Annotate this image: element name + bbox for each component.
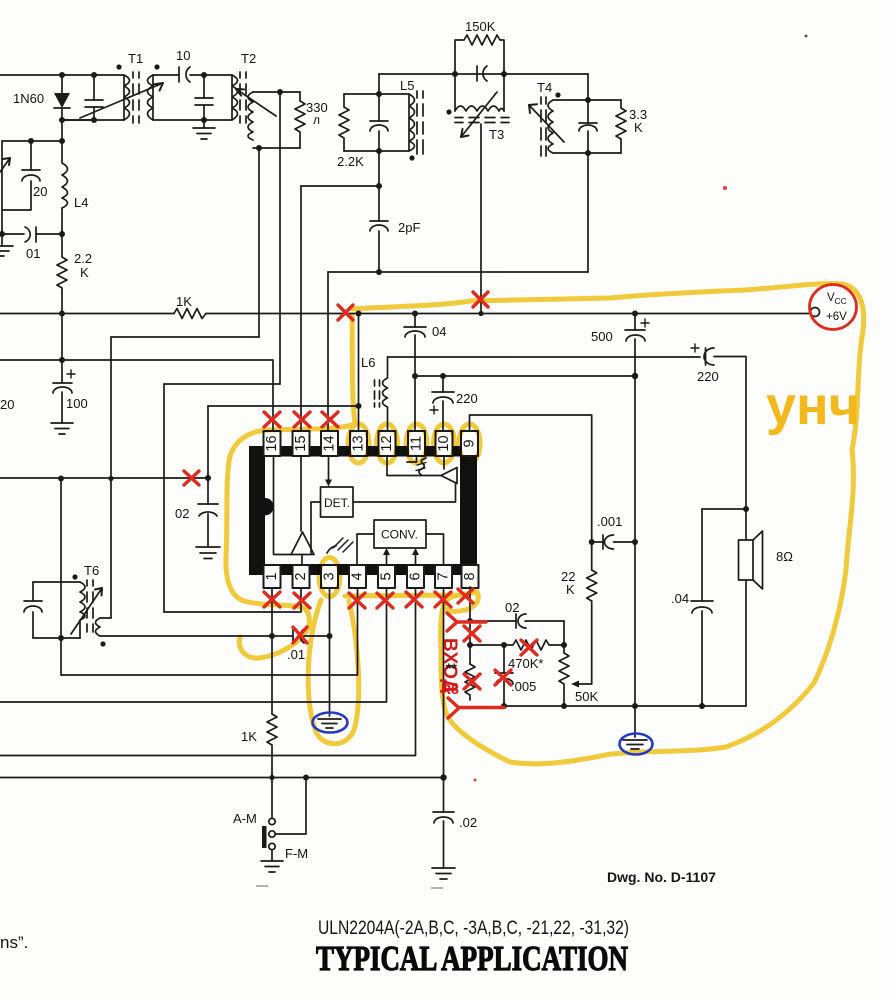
node cap20 top: [28, 138, 34, 144]
internal wire amp to pin2: [301, 555, 303, 566]
annotation X pin8 lower: [464, 626, 480, 641]
annotation X pin7: [435, 592, 451, 607]
internal wire pin16 to amp: [274, 456, 292, 555]
pin 16: [264, 431, 281, 456]
wire H4 pin13 net: [208, 405, 359, 407]
wire 500 column down: [634, 376, 636, 737]
svg-text:K: K: [634, 120, 643, 135]
wire H2 pin16 net: [0, 360, 273, 431]
internal wire pin15 to amp apex: [300, 456, 302, 531]
wire audio gnd rail y706: [504, 705, 746, 707]
T4 tank bottom wire: [553, 152, 621, 154]
annotation X 02wire: [184, 471, 199, 485]
pin 9: [461, 431, 478, 456]
node H4 pin13: [356, 403, 362, 409]
wire H1 330 net: [111, 336, 259, 338]
svg-text:15: 15: [293, 435, 309, 451]
capacitor 100 electrolytic: [53, 370, 88, 423]
svg-text:TYPICAL APPLICATION: TYPICAL APPLICATION: [316, 939, 628, 978]
svg-text:4: 4: [350, 572, 366, 580]
internal wire CONV left pin4: [357, 534, 374, 565]
wire diode to L4: [62, 120, 94, 141]
svg-text:L6: L6: [361, 355, 375, 370]
node 01 left: [0, 231, 5, 237]
wire pin9 to .001: [470, 415, 592, 535]
capacitor .04: [404, 314, 446, 432]
svg-text:6: 6: [408, 572, 424, 580]
ground pin3: [318, 719, 341, 728]
wire pin2 link: [164, 587, 301, 612]
T4 tank top wire: [553, 99, 621, 101]
diode 1N60: [13, 75, 70, 120]
internal coil symbol pin11: [407, 456, 426, 475]
annotation Vcc circle: [810, 285, 857, 330]
speaker 8 ohm: [739, 531, 794, 589]
pin 11: [408, 431, 425, 456]
svg-text:CONV.: CONV.: [381, 528, 418, 542]
capacitor .01: [287, 629, 330, 662]
highlighter left loop: [226, 315, 355, 658]
pin 14: [321, 431, 338, 456]
node .001 left: [589, 539, 595, 545]
svg-text:220: 220: [456, 391, 478, 406]
red speck near rail: [474, 779, 477, 782]
node cap bottom: [91, 117, 97, 123]
highlighter oval pin11: [406, 424, 427, 463]
svg-text:02: 02: [175, 506, 189, 521]
svg-text:2.2K: 2.2K: [337, 154, 364, 169]
resistor 1K vertical: [241, 714, 277, 772]
annotation X .005: [495, 670, 511, 685]
annotation input fork bottom: [448, 698, 504, 718]
svg-text:1K: 1K: [176, 294, 192, 309]
resistor 2.2K tank: [337, 94, 364, 169]
wire x61 to pin4 wire: [60, 638, 62, 675]
node .005 gnd: [501, 703, 507, 709]
red dot speck: [723, 186, 727, 190]
svg-text:DET.: DET.: [324, 496, 350, 510]
wire riser x208: [207, 406, 209, 478]
internal arrow pin6: [412, 548, 419, 565]
node 150K right: [501, 71, 507, 77]
wire riser x164 down: [163, 384, 165, 612]
dark speck: [805, 35, 808, 38]
resistor 150K: [455, 19, 504, 74]
svg-text:2.2: 2.2: [74, 251, 92, 266]
capacitor 220 electrolytic horiz: [691, 344, 719, 384]
pin 6: [407, 565, 424, 588]
internal wire DET right to tri2: [353, 484, 456, 502]
op-amp U1 ULN2204A body: [249, 446, 477, 575]
inductor T4: [529, 80, 564, 156]
svg-text:2: 2: [293, 572, 309, 580]
svg-text:20: 20: [0, 397, 14, 412]
node .04b gnd: [699, 703, 705, 709]
svg-text:**: **: [446, 660, 457, 676]
node L5 top: [376, 91, 382, 97]
capacitor 20: [2, 141, 47, 210]
internal CONV box: [374, 520, 426, 548]
svg-text:11: 11: [409, 436, 425, 451]
node T4 cap bottom: [585, 150, 591, 156]
node T4 cap top: [585, 97, 591, 103]
wire 02 corner down: [563, 621, 565, 645]
wire y509 .04b: [702, 508, 746, 510]
node 01 right: [59, 231, 65, 237]
internal amplifier triangle: [291, 532, 314, 555]
wire T2 sec bottom: [253, 147, 300, 149]
node rail C04: [412, 311, 418, 317]
svg-text:л: л: [313, 113, 320, 127]
internal wire pin12 to tri2: [387, 456, 441, 476]
wire T3 tap down: [480, 124, 482, 313]
svg-text:K: K: [566, 582, 575, 597]
internal DET box: [321, 487, 354, 517]
node cap top: [91, 72, 97, 78]
capacitor 02: [175, 478, 218, 547]
svg-text:8: 8: [462, 572, 478, 580]
svg-text:T3: T3: [489, 127, 504, 142]
node L4 top: [59, 138, 65, 144]
pin 2: [293, 565, 310, 588]
annotation blue oval gnd pin3: [313, 713, 348, 733]
wire T4 bottom riser: [587, 153, 589, 272]
internal hash symbol: [327, 538, 353, 553]
svg-text:13: 13: [351, 435, 367, 451]
wire T1 bottom: [62, 119, 124, 121]
node y636 pin1: [269, 633, 275, 639]
svg-text:16: 16: [264, 435, 280, 451]
node rail pin13: [356, 311, 362, 317]
svg-text:10: 10: [176, 48, 190, 63]
pin 15: [293, 431, 310, 456]
pin 7: [435, 565, 452, 588]
annotation X .01: [293, 627, 307, 643]
svg-text:T1: T1: [128, 51, 143, 66]
svg-text:1: 1: [264, 572, 280, 580]
capacitor L5 tank: [370, 94, 388, 151]
highlighter oval pin12: [377, 424, 398, 463]
capacitor T6 tank: [24, 582, 42, 638]
transformer T3: [446, 74, 509, 142]
L5 tank bottom wire: [344, 150, 409, 152]
highlighter oval pin10: [434, 424, 455, 463]
wire L5 stub up: [378, 74, 380, 94]
svg-text:Dwg. No. D-1107: Dwg. No. D-1107: [607, 869, 716, 885]
svg-text:10: 10: [436, 435, 452, 451]
svg-text:T4: T4: [537, 80, 552, 95]
resistor 1K rail: [174, 294, 206, 319]
svg-text:ns”.: ns”.: [0, 933, 28, 952]
wire pin15 riser: [300, 186, 302, 431]
node speaker tap: [743, 506, 749, 512]
svg-text:R8: R8: [441, 681, 459, 697]
capacitor T4 tank: [579, 100, 597, 153]
wire pin7 down: [443, 587, 445, 812]
resistor 470K: [470, 640, 564, 671]
resistor 50K pot: [559, 645, 598, 706]
svg-text:3: 3: [322, 572, 338, 580]
wire L4 top: [2, 140, 62, 142]
node 2pF top: [376, 183, 382, 189]
wire pin5 net y702: [0, 587, 387, 702]
svg-text:02: 02: [505, 600, 519, 615]
resistor 22K: [561, 542, 597, 684]
resistor 330: [295, 92, 328, 148]
wire pin4 net y675: [61, 587, 358, 675]
svg-text:+6V: +6V: [826, 311, 847, 323]
wire y186 to pin15 riser: [301, 185, 379, 187]
annotation X 470K: [521, 640, 537, 655]
internal stub pin10: [443, 456, 445, 469]
annotation X R8: [464, 674, 480, 689]
wire T2 sec top: [253, 91, 300, 93]
pin 4: [349, 565, 366, 588]
annotation X T3 column: [473, 292, 488, 307]
wire top rail in: [0, 74, 124, 76]
svg-text:L4: L4: [74, 195, 88, 210]
svg-text:унч: унч: [766, 376, 860, 436]
node 150K left: [452, 71, 458, 77]
svg-text:5: 5: [379, 572, 395, 580]
svg-text:470K*: 470K*: [508, 656, 543, 671]
svg-text:A-M: A-M: [233, 811, 257, 826]
wire pin8 down: [469, 587, 471, 664]
resistor 2.2K left: [57, 234, 92, 313]
node T2 top riser: [277, 89, 283, 95]
capacitor 01: [2, 227, 62, 261]
node 2pF bottom: [376, 269, 382, 275]
internal wire CONV right pin7: [426, 534, 444, 565]
annotation X rail: [338, 305, 353, 320]
svg-text:CC: CC: [835, 296, 847, 306]
annotation X pin14: [322, 412, 338, 427]
terminal Vcc circle: [811, 308, 820, 317]
node rail T3: [478, 311, 483, 316]
capacitor 10: [176, 48, 204, 82]
node pin8 470K: [467, 642, 473, 648]
svg-text:1K: 1K: [241, 729, 257, 744]
annotation X pin1: [264, 592, 280, 607]
pin 5: [378, 565, 395, 588]
node c204 bottom: [201, 117, 207, 123]
highlighter big right loop: [345, 284, 864, 764]
wire T4 feed down: [587, 74, 589, 100]
svg-text:F-M: F-M: [285, 846, 308, 861]
highlighter oval pin3: [319, 558, 340, 597]
wire riser x259 down: [258, 148, 260, 337]
annotation X pin5: [377, 593, 393, 608]
capacitor 500 electrolytic: [591, 314, 649, 377]
svg-text:12: 12: [379, 435, 395, 451]
capacitor 02 fb: [470, 600, 564, 628]
node x63 H2: [59, 357, 65, 363]
svg-text:1N60: 1N60: [13, 91, 44, 106]
wire T6 out y636: [100, 635, 293, 637]
node 50K gnd: [561, 703, 567, 709]
wire pin1 down: [271, 587, 273, 714]
svg-text:8Ω: 8Ω: [776, 549, 793, 564]
node 10 out: [201, 72, 207, 78]
resistor 3.3K: [616, 100, 647, 153]
pin 3: [321, 565, 338, 588]
node rail C500: [632, 311, 638, 317]
node 470K left: [501, 642, 507, 648]
annotation X pin16: [264, 412, 280, 427]
svg-text:.005: .005: [511, 679, 536, 694]
node .001 right: [632, 539, 638, 545]
wire riser x111 down: [110, 337, 112, 618]
pin 10: [436, 431, 453, 456]
capacitor .02: [433, 812, 477, 868]
wire B y376: [415, 375, 635, 377]
ground under C-204: [193, 120, 215, 139]
node 500col gnd: [632, 703, 638, 709]
power rail Vcc: [0, 313, 810, 315]
svg-text:100: 100: [66, 396, 88, 411]
internal arrow pin14 to DET: [325, 456, 332, 487]
arrow 22K to 50K wiper: [571, 681, 592, 688]
annotation blue oval gnd main: [620, 734, 653, 755]
node B 500: [632, 373, 638, 379]
inductor L4: [62, 141, 88, 234]
svg-text:L5: L5: [400, 78, 414, 93]
annotation X pin6: [406, 592, 422, 607]
node T6 bottom x61: [58, 635, 64, 641]
wire A L6 to speaker: [388, 356, 701, 358]
node 470K right: [561, 642, 567, 648]
wire riser x61 T6: [60, 479, 62, 639]
wire riser x280 down: [279, 92, 281, 384]
pin 8: [462, 565, 479, 588]
wire t1 gnd: [153, 119, 232, 121]
ground left edge: [0, 234, 13, 256]
wire y478 02 net: [0, 477, 208, 479]
ground under 100: [51, 423, 73, 434]
node L5 bottom: [376, 148, 382, 154]
node T2 bottom riser: [256, 145, 262, 151]
svg-text:ULN2204A(-2A,B,C, -3A,B,C, -21: ULN2204A(-2A,B,C, -3A,B,C, -21,22, -31,3…: [318, 918, 629, 939]
node switch riser: [303, 775, 309, 781]
svg-text:50K: 50K: [575, 689, 598, 704]
pin 12: [379, 431, 396, 456]
node pin8 02: [467, 618, 473, 624]
wire rail to C100: [61, 314, 63, 383]
highlighter oval pin13: [348, 424, 369, 463]
node B .04: [412, 373, 418, 379]
internal arrow pin5: [383, 548, 390, 565]
annotation X pin15: [294, 412, 310, 427]
transformer T1: [80, 51, 163, 123]
wire H3 T2 to pin2 riser: [164, 383, 280, 385]
svg-text:.02: .02: [459, 815, 477, 830]
resistor R8 pin8: [465, 664, 475, 700]
capacitor 220 electrolytic vert: [430, 376, 478, 431]
svg-text:K: K: [80, 265, 89, 280]
node diode top: [59, 72, 65, 78]
L5 tank top wire: [344, 93, 409, 95]
svg-text:2pF: 2pF: [398, 220, 420, 235]
inductor L6: [361, 355, 388, 431]
svg-text:.04: .04: [671, 591, 689, 606]
wire pin3 down to gnd: [329, 587, 331, 716]
svg-text:20: 20: [33, 184, 47, 199]
wire pin14 riser: [327, 272, 329, 431]
node y478 T6 riser: [58, 476, 64, 482]
svg-text:T2: T2: [241, 51, 256, 66]
wire pin7 rail y777.5: [0, 777, 444, 779]
svg-text:T6: T6: [84, 563, 99, 578]
scan speck marks: [256, 886, 443, 888]
pin 1: [264, 565, 281, 588]
wire L5 to 2pF: [378, 151, 380, 186]
wire top bus to T4: [379, 73, 588, 75]
ground under switch: [261, 861, 283, 872]
svg-text:01: 01: [26, 246, 40, 261]
capacitor .001: [592, 514, 635, 549]
node diode bottom: [59, 117, 65, 123]
transformer T6: [33, 563, 111, 647]
wire pin13 riser: [358, 314, 360, 432]
wire y272 to pin14 riser: [328, 271, 588, 273]
internal wire DET left: [311, 502, 321, 553]
svg-text:14: 14: [322, 435, 338, 451]
node 02 top: [205, 475, 211, 481]
wire T1 to cap 10: [153, 74, 179, 76]
internal triangle2: [441, 468, 457, 484]
node rail L4: [59, 311, 65, 317]
ground under .02: [432, 868, 455, 879]
label Vcc: [826, 292, 847, 323]
annotation X pin4: [349, 593, 365, 608]
annotation X pin8: [458, 589, 473, 603]
svg-text:.001: .001: [597, 514, 622, 529]
annotation input fork top: [447, 613, 486, 631]
capacitor 2pF: [370, 186, 420, 272]
svg-text:04: 04: [432, 324, 446, 339]
capacitor C-t1: [85, 75, 103, 120]
inductor L5: [400, 78, 423, 161]
varicap left edge: [0, 141, 10, 234]
node pin7 rail: [440, 774, 446, 780]
svg-text:500: 500: [591, 329, 613, 344]
node 1K rail crossing: [269, 775, 274, 780]
ground under 02: [196, 547, 220, 559]
capacitor C-204: [195, 75, 213, 120]
capacitor .04 bottom: [671, 509, 713, 706]
svg-text:150K: 150K: [465, 19, 496, 34]
highlighter oval pin9: [459, 424, 480, 463]
node y478 x111: [108, 476, 113, 481]
ground main audio: [623, 740, 647, 749]
svg-text:7: 7: [436, 572, 452, 580]
wire 10 to T2: [204, 74, 232, 76]
node B 220v: [440, 373, 446, 379]
switch A-M F-M: [233, 772, 308, 861]
svg-text:9: 9: [462, 439, 478, 447]
svg-text:220: 220: [697, 369, 719, 384]
wire speaker column: [714, 357, 746, 707]
wire pin6 net y755.5: [0, 587, 416, 756]
capacitor 150K parallel: [477, 66, 487, 81]
transformer T2: [232, 51, 276, 140]
highlighter pin3 loop: [308, 600, 359, 744]
annotation X pin2: [294, 593, 310, 608]
capacitor .005: [495, 645, 536, 706]
pin 13: [350, 431, 367, 456]
node y636 pin3: [327, 633, 333, 639]
